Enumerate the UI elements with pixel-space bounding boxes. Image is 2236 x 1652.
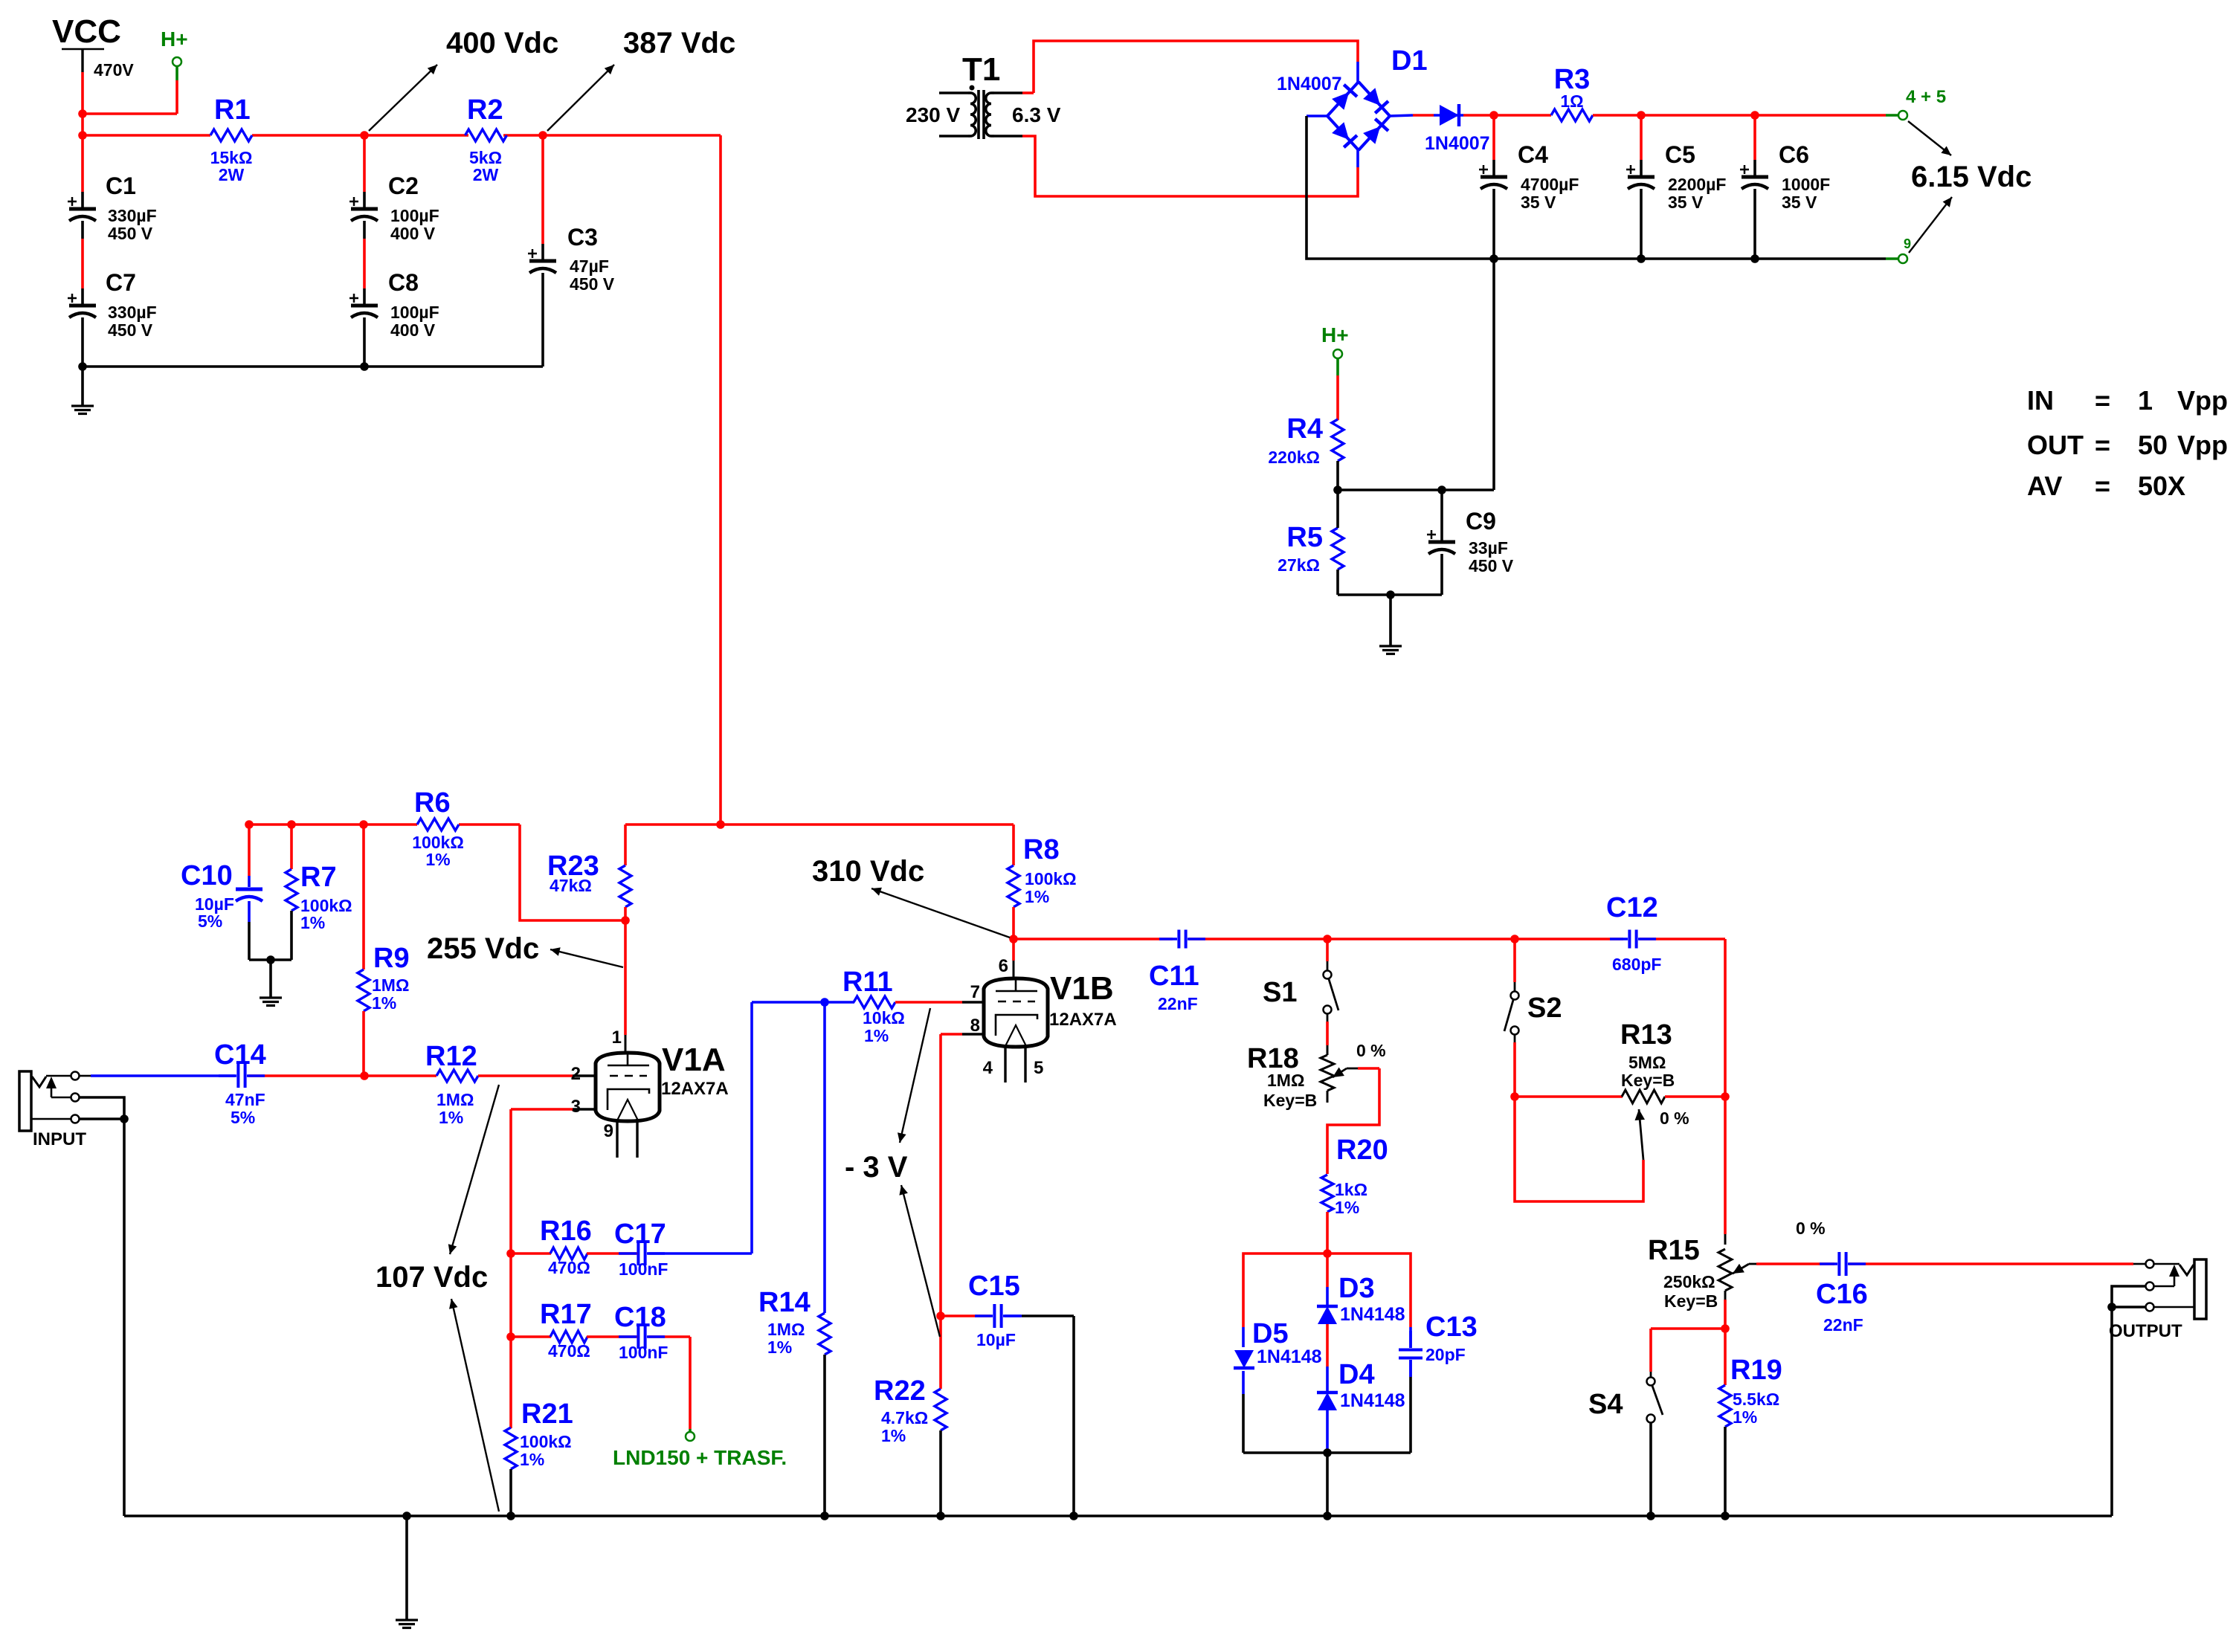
svg-text:4700µF: 4700µF xyxy=(1521,175,1579,194)
svg-text:C11: C11 xyxy=(1149,961,1199,992)
svg-text:470Ω: 470Ω xyxy=(548,1341,590,1361)
svg-text:35 V: 35 V xyxy=(1782,193,1817,212)
svg-text:1MΩ: 1MΩ xyxy=(372,975,409,995)
svg-text:R13: R13 xyxy=(1620,1019,1672,1051)
svg-text:D3: D3 xyxy=(1338,1273,1375,1304)
svg-text:R1: R1 xyxy=(214,94,251,126)
svg-text:4 + 5: 4 + 5 xyxy=(1906,87,1946,107)
svg-text:D4: D4 xyxy=(1338,1359,1375,1390)
svg-text:R19: R19 xyxy=(1730,1355,1782,1386)
svg-text:35 V: 35 V xyxy=(1521,193,1556,212)
svg-text:27kΩ: 27kΩ xyxy=(1278,555,1320,575)
svg-text:C1: C1 xyxy=(106,172,136,199)
svg-text:Key=B: Key=B xyxy=(1621,1071,1675,1090)
svg-text:3: 3 xyxy=(571,1097,581,1117)
svg-text:Key=B: Key=B xyxy=(1664,1291,1718,1311)
svg-text:C8: C8 xyxy=(388,269,419,296)
svg-text:INPUT: INPUT xyxy=(33,1129,86,1149)
svg-text:2: 2 xyxy=(571,1064,581,1084)
svg-text:450 V: 450 V xyxy=(108,224,153,243)
svg-text:47kΩ: 47kΩ xyxy=(550,876,592,895)
svg-text:C17: C17 xyxy=(614,1219,666,1250)
svg-text:1MΩ: 1MΩ xyxy=(1267,1071,1304,1090)
svg-text:1%: 1% xyxy=(767,1338,792,1357)
svg-text:1N4148: 1N4148 xyxy=(1340,1390,1405,1411)
svg-text:OUTPUT: OUTPUT xyxy=(2109,1321,2182,1341)
svg-text:H+: H+ xyxy=(1321,323,1349,346)
svg-text:V1B: V1B xyxy=(1050,970,1114,1007)
svg-text:LND150 + TRASF.: LND150 + TRASF. xyxy=(613,1446,787,1469)
svg-text:IN: IN xyxy=(2027,385,2054,416)
svg-text:1%: 1% xyxy=(439,1108,463,1127)
svg-text:T1: T1 xyxy=(962,51,1000,88)
svg-text:1%: 1% xyxy=(1733,1407,1757,1427)
svg-text:1kΩ: 1kΩ xyxy=(1335,1180,1367,1199)
svg-text:=: = xyxy=(2095,385,2110,416)
svg-text:R11: R11 xyxy=(842,967,893,998)
svg-text:Vpp: Vpp xyxy=(2177,430,2228,460)
svg-text:OUT: OUT xyxy=(2027,430,2084,460)
svg-text:107 Vdc: 107 Vdc xyxy=(376,1261,488,1294)
svg-text:R7: R7 xyxy=(300,862,337,893)
svg-text:1%: 1% xyxy=(1335,1198,1359,1217)
svg-text:1%: 1% xyxy=(520,1450,544,1469)
svg-text:R8: R8 xyxy=(1023,834,1060,865)
svg-text:C13: C13 xyxy=(1425,1311,1478,1343)
svg-text:R5: R5 xyxy=(1286,522,1323,553)
svg-text:C2: C2 xyxy=(388,172,419,199)
svg-text:4: 4 xyxy=(983,1058,993,1078)
svg-text:2200µF: 2200µF xyxy=(1668,175,1726,194)
svg-text:330µF: 330µF xyxy=(108,303,157,322)
svg-text:1%: 1% xyxy=(864,1026,889,1045)
svg-text:Vpp: Vpp xyxy=(2177,385,2228,416)
svg-text:1N4007: 1N4007 xyxy=(1425,133,1490,154)
svg-text:C3: C3 xyxy=(567,224,598,251)
svg-text:22nF: 22nF xyxy=(1158,994,1198,1013)
svg-text:12AX7A: 12AX7A xyxy=(661,1079,729,1099)
svg-text:7: 7 xyxy=(970,982,980,1002)
svg-text:R3: R3 xyxy=(1554,64,1591,95)
svg-text:0 %: 0 % xyxy=(1356,1041,1386,1060)
svg-text:R2: R2 xyxy=(467,94,503,126)
svg-text:1%: 1% xyxy=(1025,887,1049,906)
svg-text:230 V: 230 V xyxy=(906,103,960,126)
svg-text:12AX7A: 12AX7A xyxy=(1049,1010,1117,1030)
svg-text:5%: 5% xyxy=(198,911,222,931)
svg-text:C9: C9 xyxy=(1466,508,1496,535)
svg-text:1Ω: 1Ω xyxy=(1560,91,1583,111)
svg-text:D1: D1 xyxy=(1391,45,1428,77)
svg-text:1N4148: 1N4148 xyxy=(1340,1304,1405,1325)
svg-text:C16: C16 xyxy=(1816,1279,1868,1310)
svg-text:S2: S2 xyxy=(1527,993,1562,1024)
svg-text:330µF: 330µF xyxy=(108,206,157,225)
svg-text:20pF: 20pF xyxy=(1425,1345,1466,1364)
svg-text:47nF: 47nF xyxy=(225,1090,265,1109)
svg-text:=: = xyxy=(2095,471,2110,501)
svg-text:10kΩ: 10kΩ xyxy=(863,1008,905,1027)
svg-text:1000F: 1000F xyxy=(1782,175,1830,194)
svg-text:C15: C15 xyxy=(968,1271,1020,1302)
svg-text:10µF: 10µF xyxy=(976,1330,1016,1349)
svg-text:100kΩ: 100kΩ xyxy=(1025,869,1077,888)
svg-text:R16: R16 xyxy=(540,1216,592,1247)
svg-text:C18: C18 xyxy=(614,1302,666,1333)
svg-text:100nF: 100nF xyxy=(619,1343,668,1362)
svg-text:1%: 1% xyxy=(425,850,450,869)
svg-text:V1A: V1A xyxy=(662,1042,726,1078)
svg-text:400 V: 400 V xyxy=(390,224,436,243)
svg-text:1%: 1% xyxy=(300,913,325,932)
svg-text:400 Vdc: 400 Vdc xyxy=(446,27,558,59)
svg-text:=: = xyxy=(2095,430,2110,460)
svg-text:33µF: 33µF xyxy=(1469,538,1508,558)
svg-text:R15: R15 xyxy=(1648,1235,1700,1266)
svg-text:2W: 2W xyxy=(219,165,245,184)
svg-text:4.7kΩ: 4.7kΩ xyxy=(881,1408,928,1427)
svg-text:C6: C6 xyxy=(1779,141,1809,168)
svg-text:450 V: 450 V xyxy=(570,274,615,294)
svg-text:450 V: 450 V xyxy=(1469,556,1514,575)
svg-text:1MΩ: 1MΩ xyxy=(436,1090,474,1109)
svg-text:1N4007: 1N4007 xyxy=(1277,74,1342,94)
svg-text:C7: C7 xyxy=(106,269,136,296)
svg-text:VCC: VCC xyxy=(52,13,121,50)
svg-text:22nF: 22nF xyxy=(1823,1315,1863,1335)
svg-text:50: 50 xyxy=(2138,430,2168,460)
svg-text:S4: S4 xyxy=(1588,1389,1623,1420)
svg-text:1MΩ: 1MΩ xyxy=(767,1320,805,1339)
svg-text:R4: R4 xyxy=(1286,413,1323,445)
svg-text:C14: C14 xyxy=(214,1039,266,1071)
svg-text:D5: D5 xyxy=(1252,1318,1289,1349)
svg-text:100µF: 100µF xyxy=(390,303,439,322)
svg-text:5.5kΩ: 5.5kΩ xyxy=(1733,1390,1779,1409)
svg-text:255 Vdc: 255 Vdc xyxy=(427,932,539,965)
svg-text:2W: 2W xyxy=(473,165,499,184)
svg-text:0 %: 0 % xyxy=(1796,1219,1826,1238)
svg-text:6.15 Vdc: 6.15 Vdc xyxy=(1911,161,2032,193)
svg-text:1%: 1% xyxy=(372,993,396,1013)
svg-text:450 V: 450 V xyxy=(108,320,153,340)
svg-text:470V: 470V xyxy=(94,60,134,80)
svg-text:100µF: 100µF xyxy=(390,206,439,225)
svg-text:310 Vdc: 310 Vdc xyxy=(812,855,924,888)
svg-text:35 V: 35 V xyxy=(1668,193,1704,212)
svg-text:400 V: 400 V xyxy=(390,320,436,340)
svg-text:Key=B: Key=B xyxy=(1263,1091,1317,1110)
svg-text:R12: R12 xyxy=(425,1041,477,1072)
svg-text:0 %: 0 % xyxy=(1660,1109,1689,1128)
svg-text:C10: C10 xyxy=(181,860,233,891)
svg-text:100kΩ: 100kΩ xyxy=(520,1432,572,1451)
svg-text:100nF: 100nF xyxy=(619,1259,668,1279)
svg-text:AV: AV xyxy=(2027,471,2062,501)
svg-text:9: 9 xyxy=(604,1121,613,1141)
svg-text:R18: R18 xyxy=(1247,1043,1299,1074)
svg-text:220kΩ: 220kΩ xyxy=(1268,448,1320,467)
svg-text:5%: 5% xyxy=(231,1108,255,1127)
svg-text:5MΩ: 5MΩ xyxy=(1628,1053,1666,1072)
svg-text:R14: R14 xyxy=(758,1287,811,1318)
svg-text:680pF: 680pF xyxy=(1612,955,1661,974)
svg-text:6: 6 xyxy=(999,956,1008,976)
svg-text:470Ω: 470Ω xyxy=(548,1258,590,1277)
svg-text:1N4148: 1N4148 xyxy=(1257,1346,1322,1367)
svg-text:R20: R20 xyxy=(1336,1135,1388,1166)
svg-text:- 3 V: - 3 V xyxy=(845,1151,908,1184)
svg-text:47µF: 47µF xyxy=(570,256,609,276)
svg-text:R17: R17 xyxy=(540,1299,592,1330)
svg-text:8: 8 xyxy=(970,1016,980,1036)
svg-text:H+: H+ xyxy=(161,28,188,51)
svg-text:50X: 50X xyxy=(2138,471,2185,501)
svg-text:R22: R22 xyxy=(874,1375,926,1407)
svg-text:R21: R21 xyxy=(521,1398,573,1430)
svg-text:C4: C4 xyxy=(1518,141,1548,168)
svg-text:1: 1 xyxy=(612,1027,622,1048)
svg-text:250kΩ: 250kΩ xyxy=(1663,1272,1715,1291)
svg-text:1: 1 xyxy=(2138,385,2153,416)
svg-text:C12: C12 xyxy=(1606,892,1658,923)
svg-text:S1: S1 xyxy=(1263,977,1297,1008)
svg-text:6.3 V: 6.3 V xyxy=(1012,103,1061,126)
svg-text:9: 9 xyxy=(1904,236,1911,251)
svg-text:387 Vdc: 387 Vdc xyxy=(623,27,735,59)
svg-text:R6: R6 xyxy=(414,787,451,819)
svg-text:5: 5 xyxy=(1034,1058,1043,1078)
svg-text:1%: 1% xyxy=(881,1426,906,1445)
svg-text:C5: C5 xyxy=(1665,141,1695,168)
svg-text:R9: R9 xyxy=(373,943,410,974)
